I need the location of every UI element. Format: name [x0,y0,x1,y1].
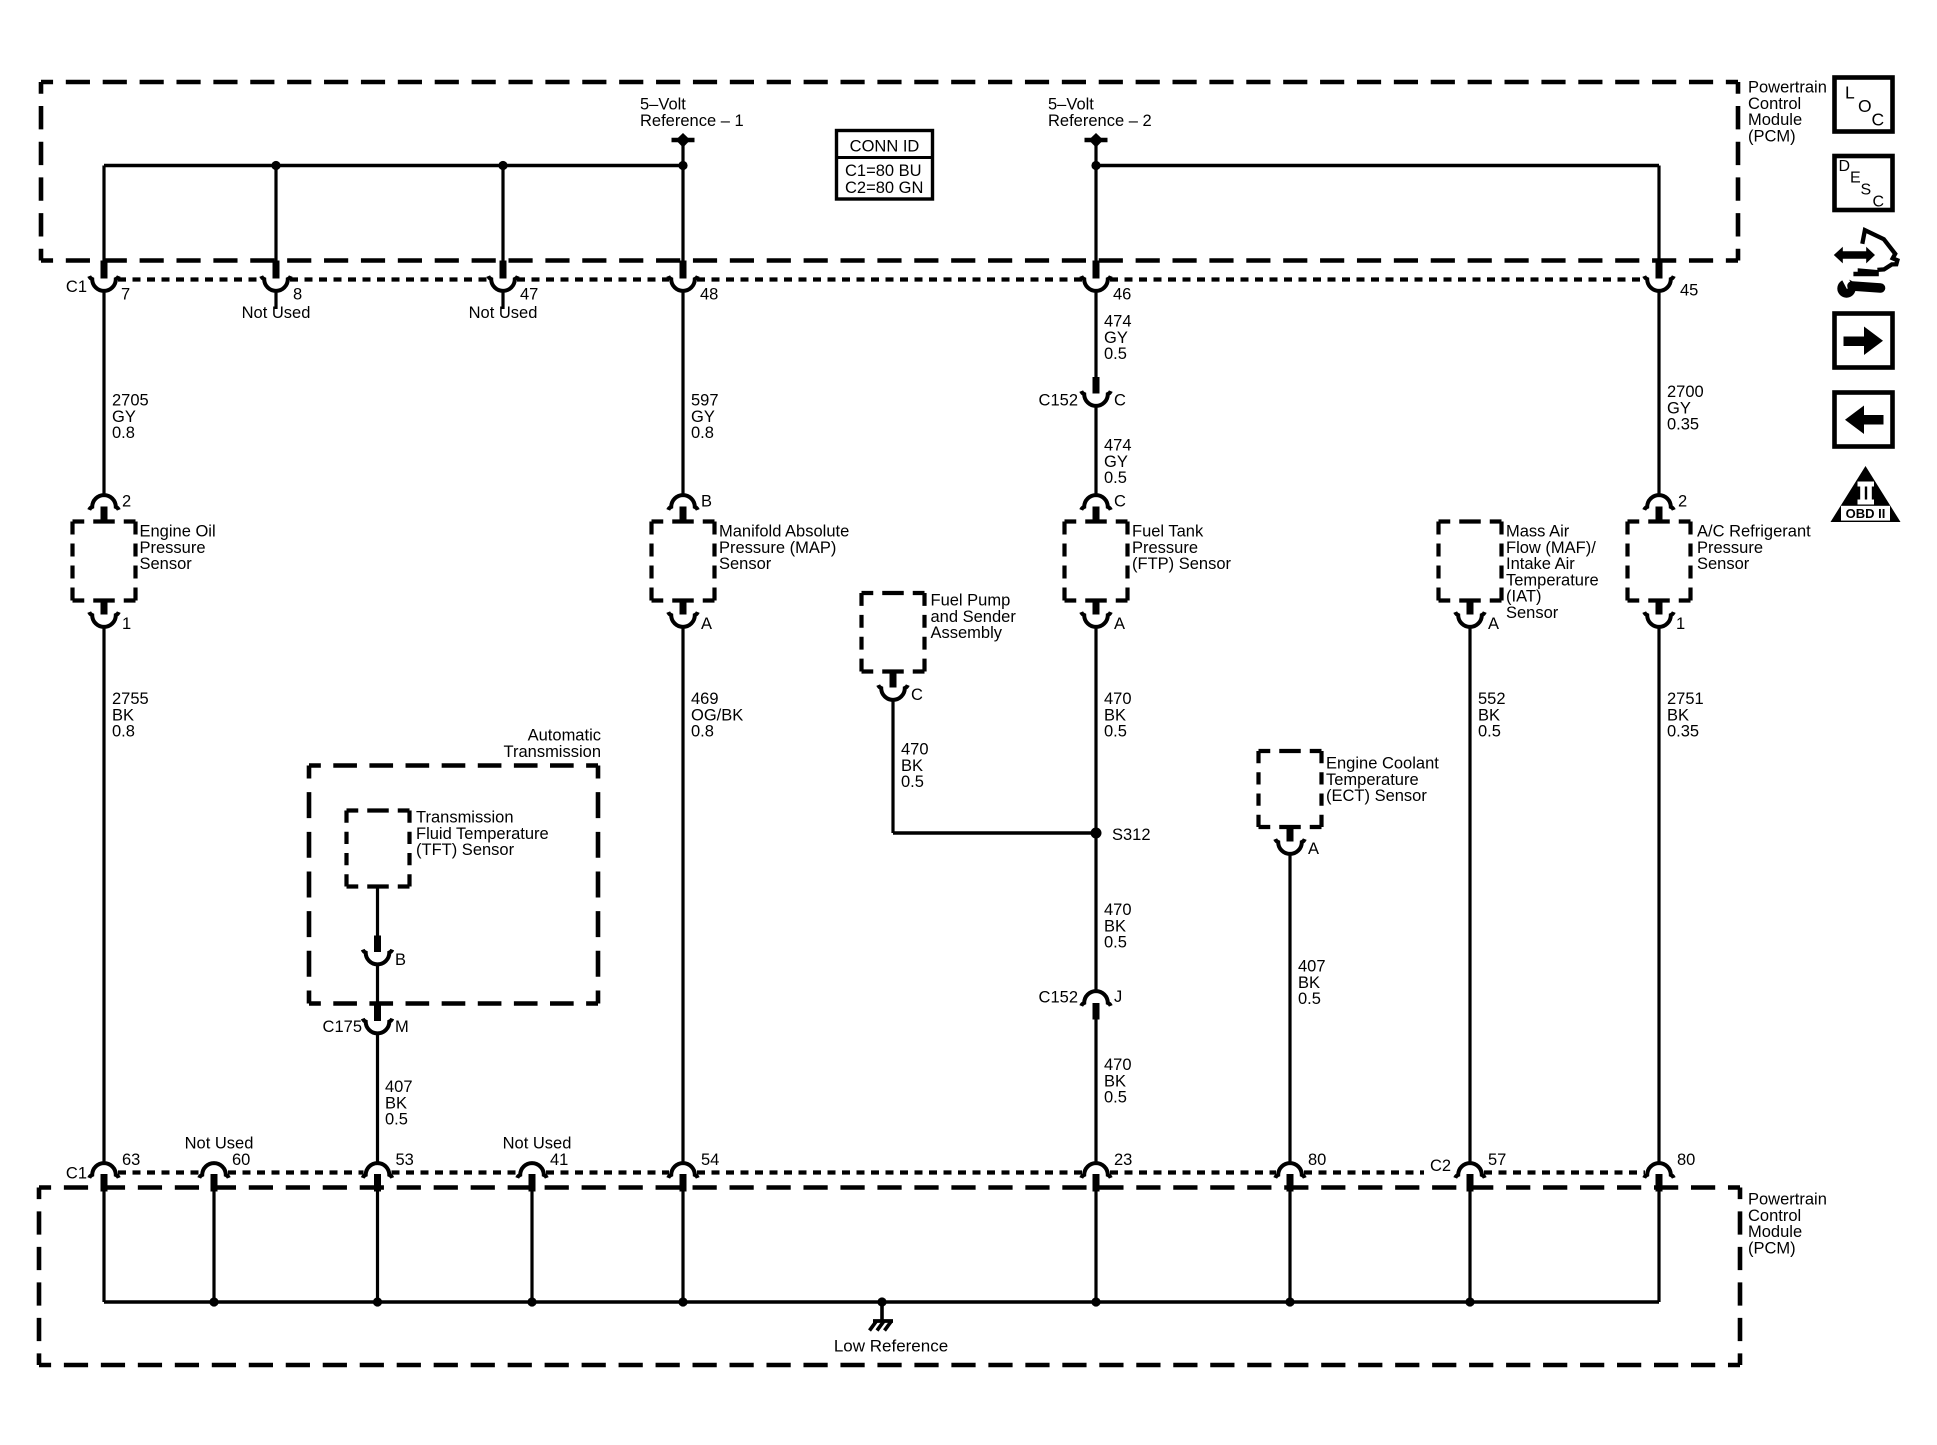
svg-text:Module: Module [1748,1223,1802,1241]
svg-text:S312: S312 [1112,826,1151,844]
svg-text:2: 2 [122,493,131,511]
svg-text:2: 2 [1678,493,1687,511]
svg-text:O: O [1858,96,1872,116]
svg-text:OBD II: OBD II [1846,506,1886,521]
svg-text:8: 8 [293,286,302,304]
svg-text:0.35: 0.35 [1667,416,1699,434]
wire: TFT pin B to C175 [376,965,379,1004]
svg-text:54: 54 [701,1151,719,1169]
svg-text:597: 597 [691,392,719,410]
junction dot on low reference bus at pin 54 [678,1297,687,1306]
wire 2751 BK: A/C sensor pin 1 to PCM pin 80 [1657,628,1660,1163]
svg-text:53: 53 [396,1151,414,1169]
connector: PCM C2 pin 57 [1455,1163,1485,1178]
svg-text:Transmission: Transmission [504,743,602,761]
svg-text:GY: GY [691,408,715,426]
connector: PCM C1 pin 23 [1081,1163,1111,1178]
svg-text:BK: BK [1298,974,1320,992]
svg-text:Fuel Pump: Fuel Pump [931,592,1011,610]
connector: A/C sensor pin 1 [1656,601,1663,615]
connector: MAP sensor pin A [680,601,687,615]
svg-text:Transmission: Transmission [416,809,514,827]
svg-text:1: 1 [122,615,131,633]
wire 470 BK: S312 to C152 J [1094,833,1097,991]
svg-text:0.5: 0.5 [1104,469,1127,487]
wire: 5V ref 1 drop to bus [681,143,684,166]
svg-text:GY: GY [112,408,136,426]
svg-text:0.5: 0.5 [1104,723,1127,741]
svg-text:S: S [1861,182,1872,199]
wire 2755 BK: engine oil sensor pin 1 to PCM pin 63 [102,628,105,1163]
svg-text:470: 470 [1104,690,1132,708]
svg-text:C: C [1114,392,1126,410]
svg-text:2705: 2705 [112,392,149,410]
svg-text:C152: C152 [1039,989,1078,1007]
svg-text:1: 1 [1676,615,1685,633]
svg-text:2751: 2751 [1667,690,1704,708]
svg-text:Intake Air: Intake Air [1506,555,1575,573]
svg-text:Low Reference: Low Reference [834,1337,948,1356]
wire 470 BK: FTP pin A to S312 [1094,628,1097,834]
component box: A/C Refrigerant Pressure Sensor [1628,519,1691,523]
component box: Fuel Pump and Sender Assembly [862,591,925,595]
wire: fuel pump branch to splice S312 [893,831,1096,834]
inline connector C152 terminal C [1093,377,1100,394]
svg-text:and Sender: and Sender [931,608,1017,626]
connector: PCM C1 pin 45 [1656,261,1663,279]
svg-text:469: 469 [691,690,719,708]
component box: Mass Air Flow (MAF)/Intake Air Temperature (IAT) Sensor [1439,519,1502,523]
svg-text:Engine Oil: Engine Oil [140,523,216,541]
wire 407 BK: C175 M to PCM pin 53 [376,1034,379,1163]
wire 469 OG/BK: MAP sensor pin A to PCM pin 54 [681,628,684,1163]
component box: Engine Coolant Temperature (ECT) Sensor [1259,749,1322,753]
svg-text:C175: C175 [323,1018,362,1036]
svg-text:48: 48 [700,286,718,304]
component box: Fuel Tank Pressure (FTP) Sensor [1065,519,1128,523]
wire 597 GY: pin 48 to MAP sensor pin B [681,291,684,495]
power symbol: 5-Volt Reference - 1 [672,138,695,143]
inline connector C152 terminal J [1081,991,1111,1006]
svg-text:0.8: 0.8 [112,723,135,741]
svg-text:474: 474 [1104,313,1132,331]
svg-text:Flow (MAF)/: Flow (MAF)/ [1506,539,1596,557]
junction dot at pin 8 branch [271,161,280,170]
wire 470 BK: fuel pump pin C down [891,701,894,834]
svg-text:BK: BK [1104,706,1126,724]
svg-text:470: 470 [1104,901,1132,919]
svg-text:0.5: 0.5 [901,773,924,791]
svg-text:Pressure: Pressure [140,539,206,557]
svg-text:BK: BK [1104,1072,1126,1090]
connector: PCM C1 pin 63 [89,1163,119,1178]
svg-text:Module: Module [1748,111,1802,129]
connector: TFT sensor pin B [374,936,381,953]
junction dot at pin 47 branch [498,161,507,170]
svg-text:Mass Air: Mass Air [1506,523,1570,541]
inline connector C175 terminal M [374,1004,381,1022]
svg-text:Temperature: Temperature [1326,771,1419,789]
icon: right arrow box [1835,314,1893,368]
svg-text:46: 46 [1113,286,1131,304]
svg-text:C2: C2 [1430,1157,1451,1175]
bottom PCM box (Powertrain Control Module) [39,1185,1740,1190]
component box: Engine Oil Pressure Sensor [73,519,136,523]
svg-text:Pressure: Pressure [1132,539,1198,557]
svg-text:BK: BK [385,1094,407,1112]
wire 474 GY upper: pin 46 to C152 C [1094,291,1097,377]
connector: PCM C1 pin 53 [363,1163,393,1178]
svg-text:C1: C1 [66,278,87,296]
icon: left arrow box [1835,393,1893,447]
svg-text:C2=80 GN: C2=80 GN [845,179,923,197]
svg-text:Not Used: Not Used [242,304,311,322]
connector: A/C refrigerant pressure sensor pin 2 [1644,495,1674,510]
junction dot on low reference bus at pin 53 [373,1297,382,1306]
svg-text:474: 474 [1104,437,1132,455]
svg-text:Reference – 1: Reference – 1 [640,112,744,130]
svg-text:Manifold Absolute: Manifold Absolute [719,523,849,541]
svg-text:Not Used: Not Used [503,1135,572,1153]
svg-text:63: 63 [122,1151,140,1169]
svg-text:Assembly: Assembly [931,624,1003,642]
svg-text:Sensor: Sensor [140,555,193,573]
connector: Fuel Pump and Sender Assembly pin C [890,672,897,688]
ground: low reference chassis ground [880,1302,884,1320]
CONN ID box [837,131,933,200]
svg-text:B: B [395,951,406,969]
svg-text:OG/BK: OG/BK [691,706,743,724]
svg-text:CONN ID: CONN ID [850,138,920,156]
wire 470 BK: C152 J to PCM pin 23 [1094,1020,1097,1163]
connector: PCM C2 pin 80 (A/C) [1644,1163,1674,1178]
junction dot on low reference bus at pin 80 ECT [1285,1297,1294,1306]
junction dot on low reference bus at pin 57 [1465,1297,1474,1306]
svg-text:2700: 2700 [1667,383,1704,401]
svg-text:GY: GY [1667,399,1691,417]
svg-text:0.5: 0.5 [1478,723,1501,741]
svg-text:47: 47 [520,286,538,304]
svg-text:80: 80 [1677,1151,1695,1169]
svg-text:B: B [701,493,712,511]
wire 552 BK: MAF/IAT pin A to PCM pin 57 [1468,628,1471,1163]
svg-text:(ECT) Sensor: (ECT) Sensor [1326,787,1427,805]
svg-text:Control: Control [1748,1207,1801,1225]
junction dot at 5V ref 1 [678,161,687,170]
wire: 5V reference 1 bus [104,164,683,167]
svg-text:C: C [911,686,923,704]
wire 2700 GY: pin 45 to A/C sensor pin 2 [1657,291,1660,495]
junction dot at 5V ref 2 [1091,161,1100,170]
svg-text:J: J [1114,988,1122,1006]
icon: LOC box [1835,78,1893,132]
connector: PCM C1 pin 8 (not used) [274,166,277,261]
svg-text:(PCM): (PCM) [1748,1239,1796,1257]
svg-text:BK: BK [1667,706,1689,724]
wire: 5V reference 2 bus [1096,164,1659,167]
svg-text:Sensor: Sensor [1506,604,1559,622]
icon: OBD II triangle [1831,466,1901,522]
svg-text:C1=80 BU: C1=80 BU [845,162,922,180]
svg-text:5–Volt: 5–Volt [1048,96,1094,114]
svg-text:Powertrain: Powertrain [1748,79,1827,97]
svg-text:57: 57 [1488,1151,1506,1169]
svg-text:80: 80 [1308,1151,1326,1169]
svg-text:C: C [1872,110,1885,130]
svg-text:BK: BK [1478,706,1500,724]
connector: PCM C1 pin 54 [668,1163,698,1178]
wire stub below pin 8 [274,291,277,309]
svg-text:552: 552 [1478,690,1506,708]
svg-text:Temperature: Temperature [1506,571,1599,589]
svg-text:Sensor: Sensor [719,555,772,573]
top PCM box (Powertrain Control Module) [41,80,1738,85]
svg-text:L: L [1845,83,1855,103]
junction dot on low reference bus at pin 41 [527,1297,536,1306]
svg-text:2755: 2755 [112,690,149,708]
svg-text:(FTP) Sensor: (FTP) Sensor [1132,555,1232,573]
svg-text:C: C [1873,194,1885,211]
junction dot on low reference bus at pin 60 [209,1297,218,1306]
junction dot on low reference bus at pin 23 [1091,1297,1100,1306]
wire: low reference bus [104,1300,1659,1304]
svg-text:0.8: 0.8 [112,424,135,442]
svg-text:7: 7 [121,286,130,304]
svg-text:GY: GY [1104,329,1128,347]
connector: MAP sensor pin B [668,495,698,510]
wire: TFT sensor to pin B [376,887,379,936]
svg-text:Automatic: Automatic [528,727,601,745]
svg-text:A/C Refrigerant: A/C Refrigerant [1697,523,1811,541]
svg-text:407: 407 [1298,958,1326,976]
connector: PCM C1 pin 60 (not used) [199,1163,229,1178]
connector: PCM C2 pin 80 (ECT) [1275,1163,1305,1178]
svg-text:0.5: 0.5 [385,1111,408,1129]
svg-text:0.5: 0.5 [1104,345,1127,363]
svg-text:0.8: 0.8 [691,723,714,741]
connector: PCM C1 pin 48 [681,166,684,261]
svg-text:470: 470 [1104,1056,1132,1074]
connector: FTP sensor pin C [1081,495,1111,510]
svg-text:GY: GY [1104,453,1128,471]
svg-text:A: A [1308,840,1319,858]
svg-text:BK: BK [112,706,134,724]
svg-text:Fluid Temperature: Fluid Temperature [416,825,549,843]
component box: Automatic Transmission [309,763,598,768]
svg-text:C: C [1114,493,1126,511]
power symbol: 5-Volt Reference - 2 [1085,138,1108,143]
svg-text:Not Used: Not Used [469,304,538,322]
connector: PCM C1 pin 46 [1094,166,1097,261]
svg-text:E: E [1850,170,1861,187]
icon: DESC box [1835,156,1893,210]
svg-text:0.5: 0.5 [1298,990,1321,1008]
wire 474 GY lower: C152 C to FTP sensor pin C [1094,407,1097,495]
svg-text:5–Volt: 5–Volt [640,96,686,114]
svg-text:C1: C1 [66,1165,87,1183]
svg-text:Pressure (MAP): Pressure (MAP) [719,539,836,557]
connector: Engine Oil Pressure Sensor pin 2 [89,495,119,510]
svg-text:45: 45 [1680,282,1698,300]
svg-text:Powertrain: Powertrain [1748,1191,1827,1209]
svg-text:A: A [1114,615,1125,633]
svg-text:BK: BK [1104,917,1126,935]
svg-text:(PCM): (PCM) [1748,127,1796,145]
connector: PCM C1 pin 41 (not used) [517,1163,547,1178]
svg-text:407: 407 [385,1078,413,1096]
svg-text:D: D [1839,158,1851,175]
wire 407 BK: ECT pin A to PCM pin 80 [1288,855,1291,1163]
splice S312 [1091,828,1102,839]
component box: Manifold Absolute Pressure (MAP) Sensor [652,519,715,523]
svg-text:(IAT): (IAT) [1506,588,1541,606]
svg-text:M: M [395,1018,409,1036]
svg-text:Fuel Tank: Fuel Tank [1132,523,1204,541]
junction dot at ground tap [877,1297,886,1306]
svg-text:Engine Coolant: Engine Coolant [1326,755,1439,773]
connector: MAF/IAT sensor pin A [1467,601,1474,615]
svg-text:Control: Control [1748,95,1801,113]
component box: Transmission Fluid Temperature (TFT) Sensor [347,808,410,812]
wire: 5V ref 2 bus corner drop to pin 45 [1657,166,1660,261]
svg-text:Pressure: Pressure [1697,539,1763,557]
svg-text:0.35: 0.35 [1667,723,1699,741]
svg-text:60: 60 [232,1151,250,1169]
connector row dotted line (bottom) [118,1170,200,1174]
connector: PCM C1 pin 47 (not used) [501,166,504,261]
svg-text:Not Used: Not Used [185,1135,254,1153]
svg-text:23: 23 [1114,1151,1132,1169]
icon: diagnostic wrench and arrows [1834,247,1875,264]
wire: 5V ref 2 drop to bus [1094,143,1097,166]
connector: Engine Oil Pressure Sensor pin 1 [101,601,108,615]
svg-text:Sensor: Sensor [1697,555,1750,573]
connector: FTP sensor pin A [1093,601,1100,615]
svg-text:0.5: 0.5 [1104,1089,1127,1107]
connector row C1 dotted line (top) [118,277,262,281]
svg-text:(TFT) Sensor: (TFT) Sensor [416,841,515,859]
svg-text:0.8: 0.8 [691,424,714,442]
svg-text:470: 470 [901,741,929,759]
connector: PCM C1 pin 7 [102,166,105,261]
wire stub below pin 47 [501,291,504,309]
svg-text:A: A [1488,615,1499,633]
connector: ECT sensor pin A [1287,827,1294,842]
svg-text:C152: C152 [1039,392,1078,410]
svg-text:Reference – 2: Reference – 2 [1048,112,1152,130]
svg-text:0.5: 0.5 [1104,934,1127,952]
wire 2705 GY: pin 7 to Engine Oil Pressure Sensor pin 2 [102,291,105,495]
svg-text:41: 41 [550,1151,568,1169]
svg-text:BK: BK [901,757,923,775]
svg-text:A: A [701,615,712,633]
